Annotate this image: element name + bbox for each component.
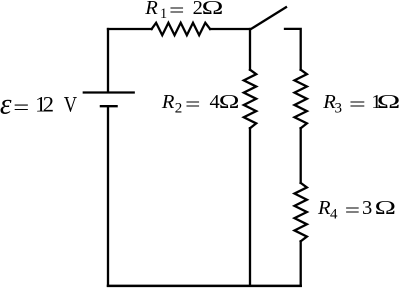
svg-text:2: 2 <box>43 92 54 117</box>
resistor R1 (zigzag) <box>152 23 211 35</box>
battery positive plate (long) <box>84 91 134 93</box>
wire R2 branch top lead <box>249 29 251 70</box>
wire bottom horizontal <box>108 285 301 288</box>
svg-text:R: R <box>161 91 175 113</box>
resistor R2 (zigzag) <box>244 70 256 129</box>
label R2 = 4 ohm <box>161 90 240 116</box>
svg-text:=: = <box>349 93 366 116</box>
svg-text:3: 3 <box>362 197 372 219</box>
resistor R3 (zigzag) <box>295 70 307 129</box>
svg-text:=: = <box>169 0 184 22</box>
svg-text:R: R <box>144 0 158 19</box>
wire right branch middle lead (R3 to R4) <box>300 128 302 183</box>
svg-text:1: 1 <box>160 6 167 22</box>
svg-text:Ω: Ω <box>375 197 396 219</box>
wire top-left segment <box>108 28 152 30</box>
svg-text:ε: ε <box>0 88 12 120</box>
label R3 = 1 ohm <box>322 89 400 116</box>
svg-text:R: R <box>317 197 331 219</box>
resistor R4 (zigzag) <box>295 183 307 241</box>
wire top-right segment to switch junction <box>210 28 250 30</box>
svg-text:Ω: Ω <box>377 89 400 112</box>
svg-text:=: = <box>345 200 360 222</box>
svg-text:3: 3 <box>335 100 343 116</box>
svg-text:=: = <box>185 94 200 116</box>
wire left vertical upper (top wire to battery) <box>107 29 109 91</box>
svg-text:V: V <box>64 93 77 117</box>
svg-text:=: = <box>13 96 29 119</box>
label R1 = 2 ohm <box>144 0 223 22</box>
battery negative plate (short) <box>101 105 117 107</box>
switch fixed contact stub and right branch top corner <box>285 29 301 70</box>
switch S1 lever (open) <box>250 7 286 29</box>
svg-text:Ω: Ω <box>202 0 224 19</box>
label epsilon = 12 V (battery EMF) <box>0 88 77 120</box>
wire left vertical lower (battery to bottom) <box>107 107 109 285</box>
svg-text:Ω: Ω <box>219 90 240 113</box>
wire R2 branch bottom lead <box>249 128 251 286</box>
svg-text:4: 4 <box>330 206 338 222</box>
label R4 = 3 ohm <box>317 197 396 223</box>
svg-text:2: 2 <box>175 100 183 116</box>
wire right branch bottom lead <box>300 241 302 285</box>
